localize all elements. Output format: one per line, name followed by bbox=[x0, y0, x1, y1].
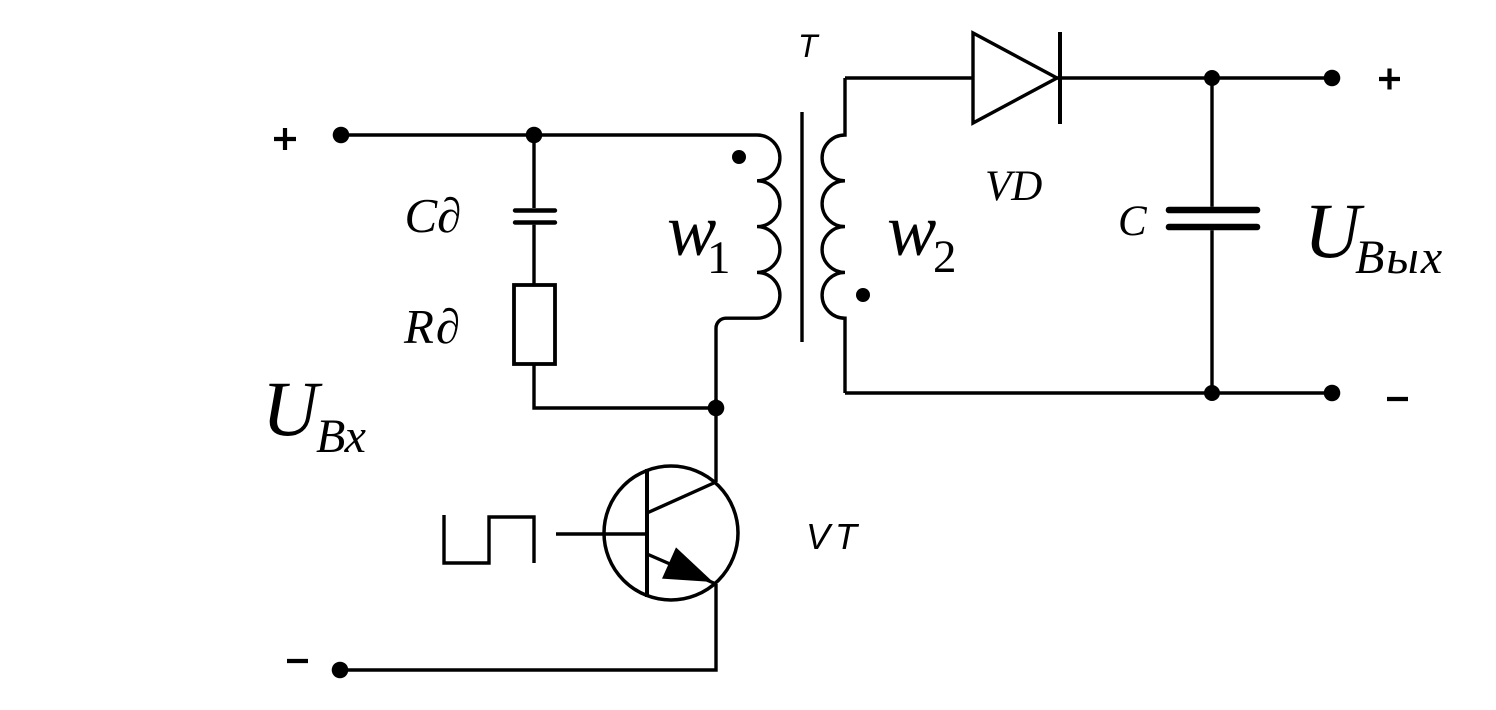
svg-text:w: w bbox=[887, 190, 936, 272]
svg-text:1: 1 bbox=[707, 232, 731, 284]
svg-text:C: C bbox=[1118, 198, 1148, 245]
svg-text:VT: VT bbox=[806, 516, 862, 557]
svg-text:T: T bbox=[798, 28, 820, 64]
svg-text:VD: VD bbox=[985, 163, 1042, 210]
svg-text:2: 2 bbox=[933, 231, 957, 283]
svg-text:Вых: Вых bbox=[1355, 231, 1444, 284]
svg-text:Вх: Вх bbox=[316, 410, 366, 463]
svg-text:R∂: R∂ bbox=[403, 299, 462, 354]
svg-text:С∂: С∂ bbox=[405, 188, 462, 243]
svg-text:U: U bbox=[262, 365, 323, 452]
